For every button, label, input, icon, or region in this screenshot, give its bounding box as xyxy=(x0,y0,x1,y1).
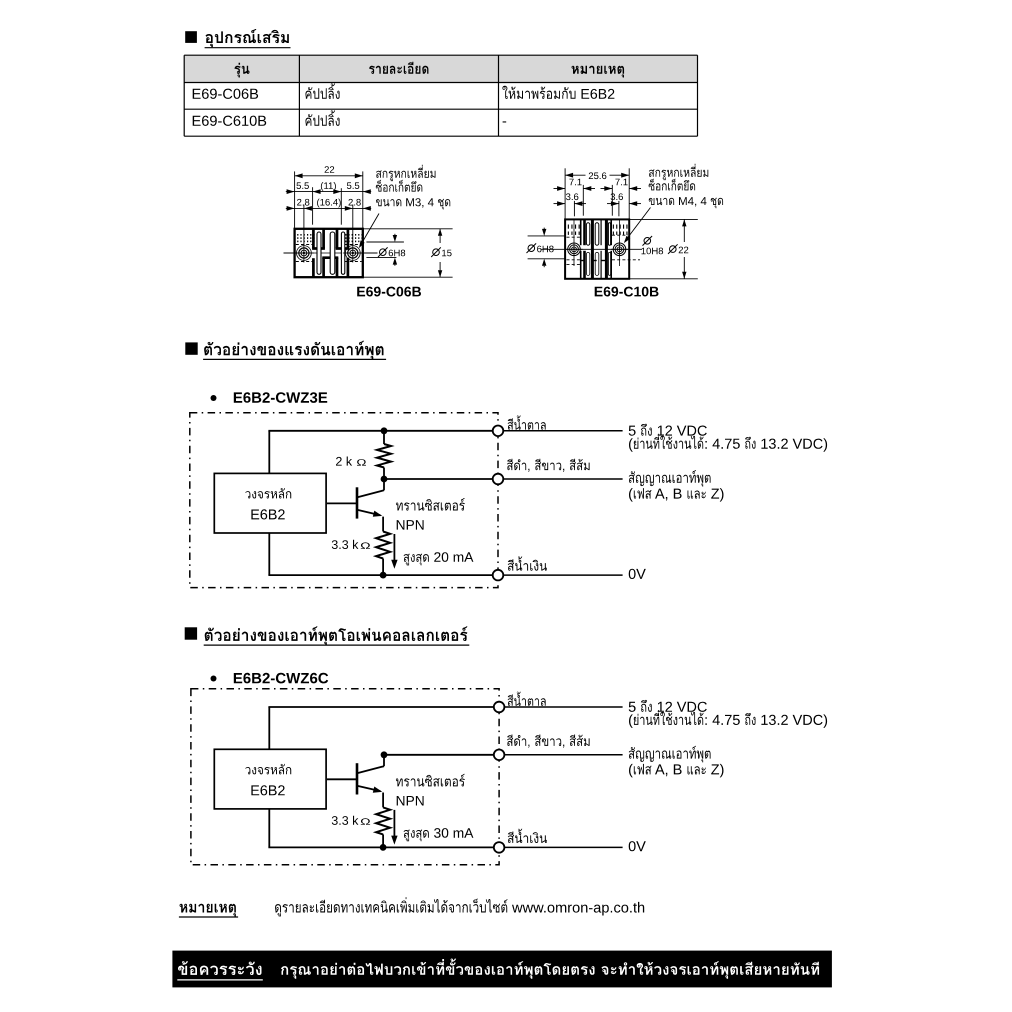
flexure slots (meander cuts) xyxy=(312,229,315,249)
label: E6B2 xyxy=(251,785,284,795)
label: transistor NPN xyxy=(396,498,465,511)
accessories table xyxy=(184,55,697,82)
label: brown wire xyxy=(508,415,546,429)
transistor Q1 NPN xyxy=(356,487,359,518)
wire: resistor to collector node xyxy=(383,468,385,480)
wire: resistor to 0V rail xyxy=(382,834,384,847)
label: main circuit (Thai) xyxy=(245,764,291,775)
label: max current xyxy=(404,554,429,566)
label: 0V xyxy=(629,841,646,851)
wire: brown lead xyxy=(504,706,622,708)
node: collector junction xyxy=(381,476,388,483)
wire: output line xyxy=(384,478,498,480)
section heading: accessories xyxy=(185,31,197,43)
terminal: brown xyxy=(493,426,504,437)
terminal: brown xyxy=(494,702,505,713)
warning bar xyxy=(172,951,832,988)
wire: box top to +V rail xyxy=(268,431,270,474)
dia 6H8 dimension (left) xyxy=(528,235,566,237)
main circuit box E6B2 xyxy=(214,749,326,809)
dimension 7.1 right xyxy=(611,185,613,216)
thin inner slots xyxy=(317,232,321,274)
shaft hole left xyxy=(297,246,312,261)
main circuit box E6B2 xyxy=(214,473,326,533)
current limit arrow xyxy=(393,534,395,566)
stipple marks xyxy=(568,225,569,229)
dia 22 dimension xyxy=(629,218,698,220)
encoder enclosure (dash-dot border) xyxy=(191,689,499,865)
section heading: open collector output example xyxy=(185,627,197,639)
leader line to screw hole xyxy=(625,208,651,242)
bullet E6B2-CWZ6C xyxy=(211,676,217,682)
label: brown wire xyxy=(508,692,546,706)
resistor R1 2 kohm xyxy=(377,444,391,468)
dimension 5.5 (11) 5.5 xyxy=(312,187,314,225)
warning heading xyxy=(178,961,262,975)
current limit arrow xyxy=(393,810,395,842)
resistor R2 3.3 kohm xyxy=(376,532,390,559)
label: max current xyxy=(404,830,429,842)
label: transistor NPN xyxy=(396,774,465,787)
stipple dots xyxy=(297,234,298,236)
dimension 7.1 left xyxy=(582,185,584,216)
label: 3.3 kohm xyxy=(332,816,359,825)
dia 15 dimension xyxy=(363,228,453,230)
wire: 0V rail xyxy=(268,846,499,848)
coupling body E69-C10B xyxy=(565,219,629,278)
coupling body E69-C06B xyxy=(295,229,363,277)
leader line to screw hole xyxy=(360,214,379,247)
node: emitter-0V junction xyxy=(380,844,387,851)
wire: rail to resistor xyxy=(383,431,385,444)
wire: box top to +V rail xyxy=(268,707,270,749)
terminal: blue xyxy=(494,842,505,853)
wire: output line xyxy=(384,754,499,756)
wire: signal lead xyxy=(504,754,622,756)
label: 2 kohm xyxy=(336,457,352,466)
label: output signal xyxy=(629,746,711,763)
wire: +V rail xyxy=(268,430,498,432)
resistor R2 3.3 kohm xyxy=(376,807,390,834)
node: collector junction xyxy=(381,751,388,758)
label: 3.3 kohm xyxy=(332,540,359,549)
note heading xyxy=(180,904,236,917)
encoder enclosure (dash-dot border) xyxy=(190,413,498,588)
terminal: black/white/orange xyxy=(494,750,505,761)
shaft hole left (6H8) xyxy=(568,243,581,256)
section heading: voltage output example xyxy=(185,342,197,354)
dia 10H8 dimension (right) xyxy=(643,236,653,246)
annotation hex socket screws M4 xyxy=(649,164,708,180)
caption E69-C06B xyxy=(357,287,421,297)
dimension 22 xyxy=(294,171,296,228)
label: output signal xyxy=(629,470,711,487)
wire: signal lead xyxy=(503,478,622,480)
bullet E6B2-CWZ3E xyxy=(211,395,217,401)
caption E69-C10B xyxy=(595,287,659,297)
label: 0V xyxy=(629,569,646,579)
note text xyxy=(275,897,508,916)
label: blue wire xyxy=(508,556,547,570)
dimension 3.6 left xyxy=(573,201,575,216)
wire: blue lead xyxy=(503,574,622,576)
centerline through body xyxy=(284,252,295,254)
node: emitter-0V junction xyxy=(380,572,387,579)
label: blue wire xyxy=(508,829,547,843)
annotation hex socket screws M3 xyxy=(376,165,435,181)
hidden dash lines xyxy=(567,236,581,238)
dimension 2.8 (16.4) 2.8 xyxy=(303,205,305,246)
connector stubs xyxy=(581,260,584,262)
wire: emitter down xyxy=(382,517,384,532)
terminal: black/white/orange xyxy=(493,474,504,485)
shaft hole right (10H8) xyxy=(613,243,626,256)
wire: box bottom to 0V rail xyxy=(268,809,270,848)
wire: 0V rail xyxy=(268,574,498,576)
wire: emitter down xyxy=(382,793,384,808)
thin inner slots xyxy=(586,223,589,245)
hidden dash lines xyxy=(296,244,313,246)
label: black, white, orange wires xyxy=(507,735,590,748)
label: black, white, orange wires xyxy=(507,459,590,472)
node: +V rail junction xyxy=(381,427,388,434)
terminal: blue xyxy=(493,570,504,581)
warning text xyxy=(281,959,819,979)
transistor Q1 NPN xyxy=(356,763,359,794)
dimension 25.6 xyxy=(564,168,566,219)
label: 5 to 12 VDC xyxy=(629,702,636,712)
wire: blue lead xyxy=(504,846,622,848)
flexure slots (meander cuts) xyxy=(580,219,582,245)
wire: brown lead xyxy=(503,430,622,432)
dimension 3.6 right xyxy=(618,201,620,216)
shaft hole right xyxy=(345,246,360,261)
label: main circuit (Thai) xyxy=(245,488,291,499)
centerline through body xyxy=(541,248,642,250)
wire: resistor to 0V rail xyxy=(382,559,384,576)
label: 5 to 12 VDC xyxy=(629,426,636,436)
wire: +V rail xyxy=(268,706,499,708)
label: E6B2 xyxy=(251,509,284,519)
wire: box bottom to 0V rail xyxy=(268,533,270,575)
dia 6H8 dimension xyxy=(366,241,404,243)
